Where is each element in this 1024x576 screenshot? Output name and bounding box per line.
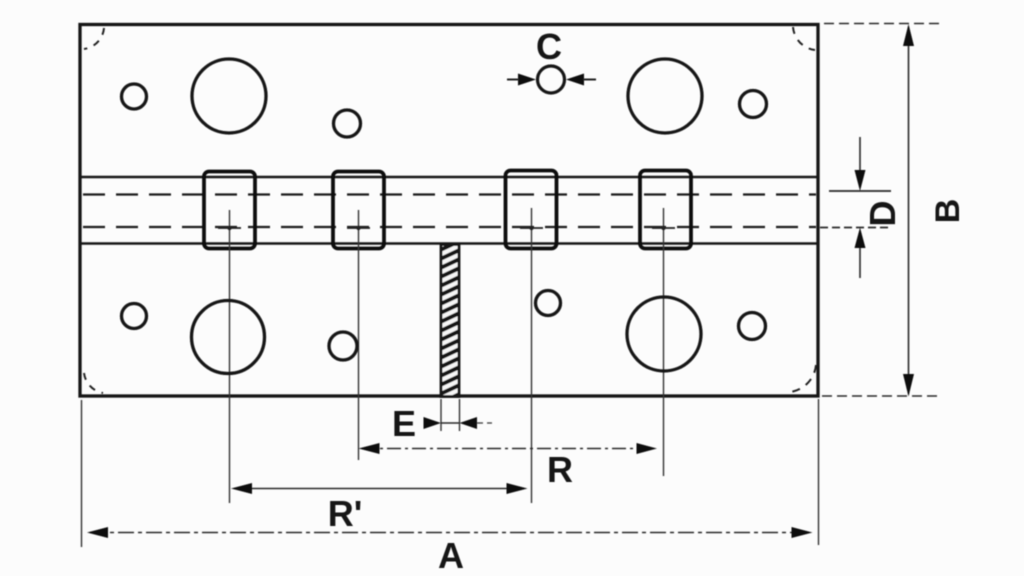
knuckle 1 center line xyxy=(229,210,231,503)
corner mark top-left xyxy=(84,28,104,49)
svg-text:E: E xyxy=(392,403,416,444)
right edge extension line xyxy=(818,399,820,545)
knuckle 1 center tick xyxy=(218,227,241,229)
knuckle 2 center line xyxy=(358,210,360,460)
D arrow up xyxy=(855,228,866,249)
left edge extension line xyxy=(81,400,83,547)
pin centerline lower (dashed) xyxy=(83,226,816,228)
R' arrow left xyxy=(231,483,252,494)
knuckle 3 center tick xyxy=(520,227,543,229)
hole bottom small mid xyxy=(536,291,561,316)
A arrow right xyxy=(792,527,813,538)
R arrow right xyxy=(637,443,658,454)
knuckle band bottom line xyxy=(82,242,817,245)
hole bottom small left xyxy=(122,304,147,329)
R' arrow right xyxy=(507,483,528,494)
hatched stile bar xyxy=(436,238,466,405)
R arrow left xyxy=(359,443,380,454)
corner mark top-right xyxy=(793,27,815,50)
A dimension line xyxy=(90,532,810,534)
A arrow left xyxy=(87,527,108,538)
E dimension left arrow xyxy=(424,417,442,429)
hole bottom medium left xyxy=(329,332,357,360)
hole top small left xyxy=(122,84,147,109)
C dimension right leader xyxy=(583,79,596,81)
hinge plate outline xyxy=(80,25,818,397)
R' dimension line xyxy=(234,488,524,490)
hole bottom large right xyxy=(627,297,701,371)
svg-text:B: B xyxy=(929,199,967,224)
C dimension right arrow xyxy=(566,74,584,86)
E dimension right leader xyxy=(477,422,492,424)
knuckle 3 center line xyxy=(531,208,533,503)
B extension line top xyxy=(824,23,941,25)
knuckle 3 center junction dot xyxy=(529,226,533,230)
svg-text:A: A xyxy=(438,535,464,576)
E dimension right arrow xyxy=(460,417,478,429)
hole top medium right xyxy=(740,91,767,118)
svg-text:R': R' xyxy=(328,493,363,534)
D extension line top xyxy=(829,190,891,192)
C dimension left arrow xyxy=(518,74,536,86)
hole top medium left xyxy=(334,110,361,137)
E dimension connecting line xyxy=(441,422,459,424)
svg-text:R: R xyxy=(547,449,573,490)
C dimension circle xyxy=(538,66,565,93)
knuckle 4 xyxy=(640,171,691,249)
corner mark bottom-left xyxy=(84,373,103,393)
hole bottom large left xyxy=(192,301,265,374)
D dimension line upper xyxy=(859,137,861,172)
knuckle 1 xyxy=(204,172,255,249)
B arrow down xyxy=(903,374,914,397)
knuckle 1 center junction dot xyxy=(227,226,231,230)
hole top large left xyxy=(192,59,266,133)
B dimension line xyxy=(908,27,910,394)
D extension line bottom xyxy=(820,227,889,229)
R dimension line xyxy=(362,448,654,450)
B extension line bottom xyxy=(822,395,941,397)
knuckle 2 xyxy=(333,172,384,249)
knuckle 2 center tick xyxy=(347,227,370,229)
pin centerline upper (dashed) xyxy=(83,193,816,195)
hole bottom medium right xyxy=(739,313,766,340)
knuckle band top line xyxy=(82,176,817,179)
knuckle 2 center junction dot xyxy=(356,226,360,230)
knuckle 4 center tick xyxy=(652,227,675,229)
B arrow up xyxy=(903,24,914,46)
D arrow down xyxy=(855,170,866,191)
svg-text:C: C xyxy=(536,26,562,67)
knuckle 3 xyxy=(506,171,557,249)
hatched bar left extension xyxy=(440,399,442,431)
corner mark bottom-right xyxy=(790,365,816,392)
D dimension line lower xyxy=(859,247,861,278)
svg-text:D: D xyxy=(862,201,903,227)
knuckle 4 center line xyxy=(663,208,665,476)
hole top large right xyxy=(628,59,702,133)
hatched bar right extension xyxy=(459,399,461,431)
C dimension left leader xyxy=(507,79,519,81)
knuckle 4 center junction dot xyxy=(661,226,665,230)
